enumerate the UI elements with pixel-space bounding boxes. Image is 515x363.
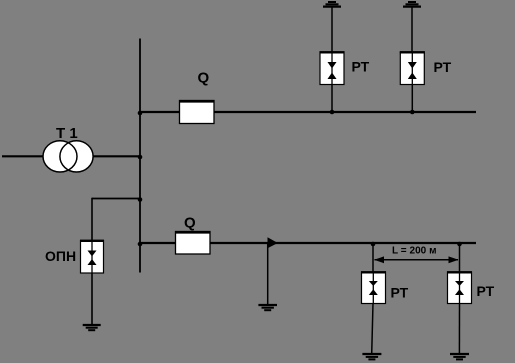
svg-text:Т 1: Т 1 — [56, 125, 78, 142]
surge arrester ОПН — [80, 241, 104, 274]
svg-text:РТ: РТ — [352, 59, 370, 75]
breaker Q2 — [175, 215, 211, 255]
wire: ground to PT1 — [331, 7, 333, 52]
node: PT4 drop at lower feeder — [457, 242, 462, 247]
breaker Q1 — [179, 69, 215, 123]
svg-text:Q: Q — [184, 215, 196, 232]
wire: arrester to ground — [91, 273, 93, 325]
arrester PT1 — [320, 52, 345, 85]
node: upper feeder at bus — [138, 111, 143, 116]
svg-text:РТ: РТ — [477, 283, 495, 299]
node: PT2 drop at feeder — [410, 110, 415, 115]
arrester PT2 — [400, 52, 425, 85]
arrester PT3 — [361, 272, 386, 304]
wire: feeder down to PT3 — [372, 243, 374, 272]
node: arrester branch at bus — [138, 197, 143, 202]
ground: inverted earth above PT1 — [323, 2, 341, 7]
node: PT3 drop at lower feeder — [371, 242, 376, 247]
wire: ground to PT2 — [411, 7, 413, 52]
wire: lower feeder — [140, 242, 476, 244]
wire: branch from bus to surge arrester — [92, 198, 140, 200]
ground: below PT4 — [450, 354, 469, 359]
node: transformer to bus junction — [138, 155, 143, 160]
bus: main vertical busbar — [139, 39, 141, 273]
ground: below ОПН — [83, 325, 101, 330]
dimension line between PT3 and PT4 drops — [374, 256, 459, 263]
wire: PT3 to ground — [372, 304, 373, 355]
wire: down to arrester — [91, 198, 93, 241]
svg-text:L = 200 м: L = 200 м — [392, 246, 437, 257]
svg-text:Q: Q — [198, 69, 210, 86]
wire: PT4 to ground — [458, 304, 460, 355]
node: lower feeder at bus — [138, 242, 143, 247]
ground: below arrow tap — [258, 305, 277, 310]
wire: feeder down to PT4 — [459, 243, 461, 272]
wire: arrow tap down to ground — [267, 243, 269, 305]
node: PT1 drop at feeder — [330, 110, 335, 115]
ground: inverted earth above PT2 — [403, 2, 421, 7]
arrester PT4 — [447, 272, 472, 304]
transformer T1 — [43, 125, 93, 172]
svg-text:РТ: РТ — [391, 285, 409, 301]
arrow: feed direction on lower feeder — [268, 237, 278, 248]
wire: upper feeder — [140, 111, 476, 113]
ground: below PT3 — [362, 354, 381, 359]
wire: PT2 to upper feeder — [411, 85, 413, 113]
svg-text:ОПН: ОПН — [45, 248, 76, 264]
svg-text:РТ: РТ — [434, 59, 452, 75]
wire: source line into transformer — [2, 155, 140, 157]
wire: PT1 to upper feeder — [331, 85, 333, 113]
